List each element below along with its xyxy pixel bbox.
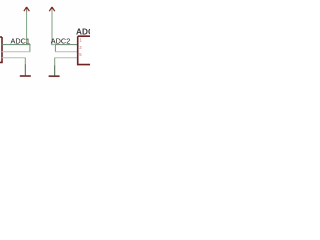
IC U1 (left, partial box) bbox=[0, 37, 2, 62]
wire ground riser 2 bbox=[54, 58, 56, 66]
wire VDD vertical 1 bbox=[26, 9, 28, 45]
ground symbol GND2 bbox=[49, 75, 60, 77]
power symbol VDD arrow 2 bbox=[49, 7, 55, 12]
wire jog node A to pin2 wire bbox=[29, 44, 31, 52]
wire pin2 (horizontal y51.5) bbox=[2, 51, 31, 53]
svg-text:ADC1: ADC1 bbox=[11, 36, 30, 45]
svg-text:ADC2: ADC2 bbox=[51, 36, 70, 45]
ground symbol GND1 bbox=[20, 75, 31, 77]
wire ADC1 net (horizontal, pin to node) bbox=[2, 44, 31, 46]
ADC IC U2 (right, partial box) bbox=[78, 36, 92, 64]
wire jog node B bbox=[54, 45, 56, 52]
wire ADC2 net (horizontal to ADC box pin 1) bbox=[51, 44, 56, 46]
power symbol VDD arrow 1 bbox=[24, 7, 30, 12]
svg-text:ADC: ADC bbox=[76, 27, 90, 36]
wire to ADC box pin 3 (horizontal y51.5) bbox=[55, 51, 77, 53]
wire to ADC box pin 5 (horizontal y57.6) bbox=[55, 57, 78, 59]
wire pin3 to ground 1 (horizontal y57.6) bbox=[2, 57, 26, 59]
wire VDD vertical 2 bbox=[51, 9, 53, 45]
wire ground riser 1 bbox=[24, 58, 26, 65]
